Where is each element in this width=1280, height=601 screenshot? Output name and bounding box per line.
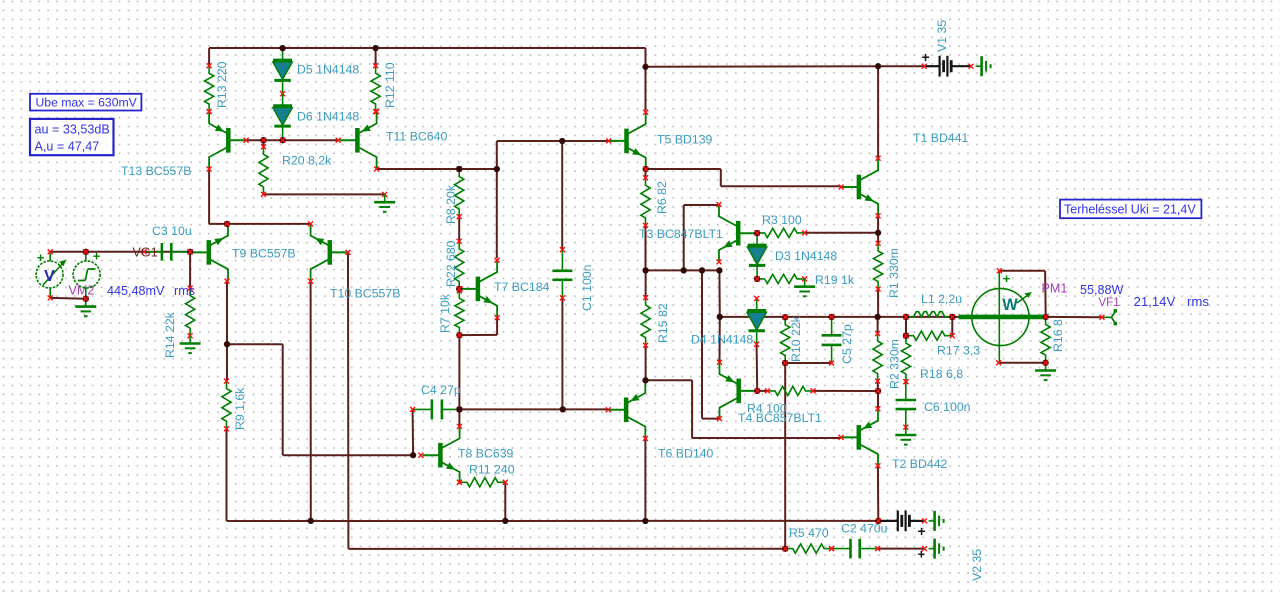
pin X R3 left node xyxy=(755,231,760,236)
svg-text:R9 1,6k: R9 1,6k xyxy=(233,387,247,430)
resistor R8 20k xyxy=(455,167,464,220)
label C4 27p xyxy=(421,383,461,397)
svg-text:V: V xyxy=(44,268,55,285)
wire R9 top from T9 collector xyxy=(226,281,228,344)
capacitor C6 100n xyxy=(896,379,917,430)
pin T8 base xyxy=(418,453,423,458)
resistor R14 22k xyxy=(186,286,195,339)
wire R9 upper stub xyxy=(226,344,228,381)
pin T13 emitter xyxy=(207,109,212,114)
svg-text:C3 10u: C3 10u xyxy=(152,224,192,238)
wire R20 bottom to ground xyxy=(264,193,385,195)
wire R17 right stub xyxy=(951,317,953,336)
label T8 BC639 xyxy=(458,447,514,461)
svg-text:C1 100n: C1 100n xyxy=(580,264,594,311)
resistor R2 330m xyxy=(873,331,882,384)
plus V2 xyxy=(918,523,926,539)
wire R7 col down xyxy=(458,335,460,409)
wire R9 lower stub xyxy=(226,429,228,521)
junction xyxy=(187,249,193,255)
svg-text:T5 BD139: T5 BD139 xyxy=(657,133,713,147)
pin T5 collector xyxy=(643,110,648,115)
junction xyxy=(224,221,230,227)
ground VG1 xyxy=(75,299,96,316)
wire base row T13-T11 xyxy=(245,139,338,141)
svg-text:T6 BD140: T6 BD140 xyxy=(658,447,714,461)
text input level xyxy=(107,284,165,298)
wire to T2 base xyxy=(692,437,841,439)
pin X R10 top node xyxy=(783,315,788,320)
wire PM1 plus right xyxy=(999,270,1045,272)
junction xyxy=(494,166,500,172)
pin T3 emitter xyxy=(717,259,722,264)
junction xyxy=(875,230,881,236)
transistor T9 BC557B xyxy=(191,224,228,281)
svg-text:R6 82: R6 82 xyxy=(655,181,669,214)
wire R10 node down to lower rail xyxy=(784,363,786,549)
label T1 BD441 xyxy=(913,131,969,145)
resistor R17 3,3 xyxy=(904,331,955,340)
label C5 27p xyxy=(840,324,854,364)
wire T4 collector link xyxy=(702,418,720,420)
wire R8-R22 link xyxy=(458,217,460,242)
wire C4 left column xyxy=(412,409,415,455)
resistor R20 8,2k xyxy=(259,144,268,197)
resistor R13 220 xyxy=(205,63,214,114)
wire T11 collector row xyxy=(377,168,497,170)
svg-text:VM2: VM2 xyxy=(69,284,95,298)
junction xyxy=(642,64,648,70)
wire R4 to R2 node xyxy=(813,390,878,392)
pin D5 cathode xyxy=(280,91,285,96)
text Terhelessel xyxy=(1064,202,1196,216)
junction xyxy=(699,267,705,273)
diode D3 1N4148 xyxy=(747,233,767,279)
label V1 35 xyxy=(935,20,949,52)
pin T7 emitter xyxy=(495,315,500,320)
wire T1 emitter lead xyxy=(877,216,879,233)
ground C6 xyxy=(895,427,916,444)
wire C4 to T6 base xyxy=(459,408,608,410)
plus VG1 xyxy=(93,249,101,264)
junction xyxy=(949,314,955,320)
pin X R16 top node xyxy=(1043,314,1048,319)
wire feedback branch down xyxy=(282,344,284,455)
junction xyxy=(903,314,909,320)
label R22 680 xyxy=(444,240,458,287)
V of VM2 xyxy=(44,268,55,285)
junction xyxy=(1043,314,1049,320)
pin T3 collector xyxy=(717,202,722,207)
svg-text:R13 220: R13 220 xyxy=(215,61,229,108)
svg-text:+: + xyxy=(922,49,930,65)
wire PM1 plus down xyxy=(1044,271,1047,317)
pin T4 emitter xyxy=(717,360,722,365)
junction xyxy=(874,314,880,320)
junction xyxy=(642,267,648,273)
svg-text:R11 240: R11 240 xyxy=(469,463,515,477)
wire T1 collector to rail xyxy=(877,66,879,158)
svg-text:Terheléssel Uki = 21,4V: Terheléssel Uki = 21,4V xyxy=(1064,202,1196,216)
label R10 22k xyxy=(789,315,803,362)
junction xyxy=(83,296,89,302)
wire R1 bottom stub xyxy=(877,289,879,317)
plus VM2 xyxy=(37,250,45,265)
label T2 BD442 xyxy=(892,457,948,471)
wire R20 top lead xyxy=(263,140,265,147)
label T7 BC184 xyxy=(494,280,550,294)
W of PM1 xyxy=(1002,296,1018,314)
capacitor C4 27p xyxy=(410,399,462,419)
svg-text:T2 BD442: T2 BD442 xyxy=(892,457,948,471)
label R12 110 xyxy=(383,62,397,108)
junction xyxy=(456,166,462,172)
wire R4 left stub xyxy=(757,390,767,392)
diode D5 1N4148 xyxy=(273,48,293,94)
pin T11 emitter xyxy=(374,109,379,114)
label R7 10k xyxy=(438,293,452,333)
wire bottom rail A xyxy=(227,520,879,522)
svg-text:D3 1N4148: D3 1N4148 xyxy=(775,249,837,263)
svg-text:rms: rms xyxy=(174,284,195,298)
svg-text:C5 27p: C5 27p xyxy=(840,324,854,364)
label T6 BD140 xyxy=(658,447,714,461)
wire R10 bottom to C5 bottom xyxy=(785,362,832,364)
wire T3 collector riser xyxy=(683,205,685,270)
pin X R7 bottom node xyxy=(457,333,462,338)
svg-text:+: + xyxy=(1003,271,1011,286)
svg-text:T1 BD441: T1 BD441 xyxy=(913,131,969,145)
svg-text:R19 1k: R19 1k xyxy=(815,273,855,287)
junction xyxy=(875,518,881,524)
text power xyxy=(1080,283,1124,297)
label VF1 xyxy=(1099,297,1120,309)
transistor T6 BD140 xyxy=(608,381,645,438)
svg-text:VF1: VF1 xyxy=(1099,297,1120,309)
svg-text:R1 330m: R1 330m xyxy=(887,248,901,298)
ground R19 xyxy=(794,279,815,296)
junction xyxy=(828,314,834,320)
svg-text:A,u = 47,47: A,u = 47,47 xyxy=(35,140,100,154)
svg-text:R15 82: R15 82 xyxy=(656,303,670,343)
pin T10 base xyxy=(346,250,351,255)
svg-text:T3 BC847BLT1: T3 BC847BLT1 xyxy=(639,227,723,241)
capacitor C2 470u xyxy=(829,539,880,559)
pin X L1 left node xyxy=(904,314,909,319)
pin X R2 bottom node xyxy=(876,389,881,394)
svg-text:R16 8: R16 8 xyxy=(1051,319,1065,352)
resistor R12 110 xyxy=(371,63,380,114)
label R2 330m xyxy=(888,339,902,389)
junction xyxy=(560,406,566,412)
wire T3 collector link xyxy=(684,204,719,206)
annotation box Ube max xyxy=(30,94,141,111)
wire feedback to T8 base xyxy=(283,454,413,456)
wire T6 emitter branch xyxy=(646,379,693,381)
resistor R19 1k xyxy=(755,274,808,283)
junction xyxy=(1042,360,1048,366)
label R6 82 xyxy=(655,181,669,214)
label R8 20k xyxy=(444,184,458,224)
text au xyxy=(35,123,110,137)
wire T10 collector down xyxy=(310,281,312,521)
svg-text:R10 22k: R10 22k xyxy=(789,315,803,362)
pin D4 cathode xyxy=(754,342,759,347)
text Ube max xyxy=(36,95,138,109)
wire T5 emitter drop xyxy=(720,169,722,186)
transistor T5 BD139 xyxy=(609,112,646,169)
wire junction row xyxy=(646,269,720,271)
pin T1 base xyxy=(839,185,844,190)
annotation box Terhelessel xyxy=(1060,200,1201,219)
wire bottom rail B xyxy=(348,548,785,550)
pin X R17 left node xyxy=(904,333,909,338)
label D4 1N4148 xyxy=(691,333,753,347)
svg-text:rms: rms xyxy=(1187,294,1209,309)
svg-text:D4 1N4148: D4 1N4148 xyxy=(691,333,753,347)
junction xyxy=(260,137,266,143)
wire VM2 to VG1 top xyxy=(50,251,190,253)
junction xyxy=(717,314,723,320)
resistor R16 8 xyxy=(1041,317,1050,363)
svg-text:D6 1N4148: D6 1N4148 xyxy=(297,110,359,124)
text input rms xyxy=(174,284,195,298)
pin X R4 left node xyxy=(755,388,760,393)
label R19 1k xyxy=(815,273,855,287)
transistor T1 BD441 xyxy=(841,158,878,215)
wire D4 cathode to T4 base node xyxy=(756,344,759,391)
resistor R4 100 xyxy=(765,386,816,395)
pin X D6 cathode node xyxy=(280,138,285,143)
wire VM2 bottom xyxy=(50,297,86,300)
wire to T1 base xyxy=(721,185,841,187)
pin T11 base xyxy=(336,138,341,143)
transistor T3 BC847BLT1 xyxy=(719,205,756,262)
junction xyxy=(875,388,881,394)
wire T2 collector down xyxy=(877,466,879,521)
svg-text:R5 470: R5 470 xyxy=(789,526,829,540)
resistor R11 240 xyxy=(457,478,508,487)
svg-text:R17 3,3: R17 3,3 xyxy=(937,344,980,358)
wire R2 bottom stub xyxy=(877,381,879,391)
plus C2 xyxy=(918,547,926,562)
label R9 1,6k xyxy=(233,387,247,430)
pin X VG1 bottom node xyxy=(83,296,88,301)
wire C1 top xyxy=(561,141,563,250)
inductor L1 2,2u xyxy=(904,312,955,320)
battery V1 35 xyxy=(922,56,974,77)
ground R16/PM1 xyxy=(1035,363,1056,380)
svg-text:21,14V: 21,14V xyxy=(1134,294,1176,309)
resistor R9 1,6k xyxy=(222,379,231,432)
pin T4 collector xyxy=(717,416,722,421)
junction xyxy=(782,546,788,552)
junction xyxy=(308,518,314,524)
wire R11 down to rail xyxy=(504,482,506,521)
junction xyxy=(754,230,760,236)
svg-text:R20 8,2k: R20 8,2k xyxy=(282,154,332,168)
pin X L1 right node xyxy=(950,314,955,319)
pin X R20 top node xyxy=(261,138,266,143)
pin T5 base xyxy=(606,138,611,143)
ground V2 xyxy=(929,511,944,531)
label R14 22k xyxy=(163,311,177,358)
junction xyxy=(279,137,285,143)
text Au xyxy=(35,140,100,154)
svg-text:55,88W: 55,88W xyxy=(1080,283,1124,297)
ground after R20 xyxy=(374,194,395,211)
label T9 BC557B xyxy=(232,247,296,261)
label C1 100n xyxy=(580,264,594,311)
pin T10 emitter xyxy=(308,221,313,226)
pin X T9 base node xyxy=(188,249,193,254)
transistor T10 BC557B xyxy=(311,224,348,281)
junction xyxy=(502,518,508,524)
pin X R16 bottom node xyxy=(1043,360,1048,365)
wire R2 top stub xyxy=(877,317,879,334)
transistor T2 BD442 xyxy=(841,409,878,466)
junction xyxy=(782,314,788,320)
pin X R10 bottom node xyxy=(783,361,788,366)
label R5 470 xyxy=(789,526,829,540)
junction xyxy=(903,333,909,339)
svg-text:VG1: VG1 xyxy=(133,246,158,260)
junction xyxy=(754,276,760,282)
wire R6 top lead xyxy=(645,169,647,178)
wire C1 bottom xyxy=(561,298,563,410)
label T13 BC557B xyxy=(121,164,191,178)
wire T8 collector stub xyxy=(458,409,460,426)
svg-text:V1 35: V1 35 xyxy=(935,20,949,52)
junction xyxy=(754,388,760,394)
label D5 1N4148 xyxy=(297,63,359,77)
pin T7 collector xyxy=(495,258,500,263)
wire T5 collector xyxy=(645,67,647,111)
wire T3/T4 emitter column upper xyxy=(718,270,720,317)
wire branch down xyxy=(691,380,693,438)
svg-text:+: + xyxy=(93,249,101,264)
capacitor C1 100n xyxy=(552,247,572,300)
wire T3/T4 emitter column lower xyxy=(719,317,721,362)
transistor T7 BC184 xyxy=(460,260,497,317)
resistor R18 6,8 xyxy=(901,333,910,384)
pin T2 collector xyxy=(875,463,880,468)
junction xyxy=(716,267,722,273)
wire top rail drop xyxy=(645,48,647,67)
label VM2 xyxy=(69,284,95,298)
svg-text:T4 BC857BLT1: T4 BC857BLT1 xyxy=(738,411,822,425)
label C3 10u xyxy=(152,224,192,238)
wire R15 bottom lead xyxy=(645,345,647,380)
wire C2 to V2 ground xyxy=(878,548,925,550)
pin T8 emitter xyxy=(457,480,462,485)
label T10 BC557B xyxy=(330,287,400,301)
pin T1 collector xyxy=(876,156,881,161)
pin T8 collector xyxy=(457,424,462,429)
svg-text:T7 BC184: T7 BC184 xyxy=(494,280,550,294)
pin X T9 collector xyxy=(225,279,230,284)
svg-text:PM1: PM1 xyxy=(1042,282,1068,296)
wire top rail V+ upper xyxy=(209,47,645,49)
resistor R7 10k xyxy=(455,288,464,337)
wire T13 collector to diff pair emitters xyxy=(209,223,311,225)
wire T13 collector down xyxy=(208,169,210,224)
label R13 220 xyxy=(215,61,229,108)
label R20 8,2k xyxy=(282,154,332,168)
svg-text:T9 BC557B: T9 BC557B xyxy=(232,247,296,261)
svg-text:Ube max = 630mV: Ube max = 630mV xyxy=(36,95,138,109)
wire T5 emitter row xyxy=(646,168,721,170)
pin T7 base xyxy=(458,286,463,291)
wire R13 top lead xyxy=(208,48,210,66)
annotation box au/Au xyxy=(30,119,114,155)
wire R1 top stub xyxy=(877,233,879,244)
svg-text:W: W xyxy=(1002,296,1018,314)
resistor R15 82 xyxy=(641,295,650,348)
junction xyxy=(875,63,881,69)
svg-text:T13 BC557B: T13 BC557B xyxy=(121,164,191,178)
pin D4 anode xyxy=(754,296,759,301)
plus PM1 xyxy=(1003,271,1011,286)
ground C2 return xyxy=(929,539,944,559)
text output rms xyxy=(1187,294,1209,309)
pin T6 collector xyxy=(643,436,648,441)
label T4 BC857BLT1 xyxy=(738,411,822,425)
label R17 3,3 xyxy=(937,344,980,358)
svg-text:R22 680: R22 680 xyxy=(444,240,458,287)
transistor T11 BC640 xyxy=(340,112,377,169)
pin R20 ground end xyxy=(382,192,387,197)
label C2 470u xyxy=(841,522,888,536)
label T3 BC847BLT1 xyxy=(639,227,723,241)
pin X T7 base node xyxy=(457,286,462,291)
junction xyxy=(224,341,230,347)
pin X T13 collector xyxy=(207,167,212,172)
probe VF1 xyxy=(1100,309,1118,325)
svg-text:R18 6,8: R18 6,8 xyxy=(920,367,963,381)
svg-text:L1 2,2u: L1 2,2u xyxy=(921,292,962,306)
resistor R5 470 xyxy=(783,544,834,553)
svg-text:R7 10k: R7 10k xyxy=(438,293,452,333)
svg-text:T8 BC639: T8 BC639 xyxy=(458,447,514,461)
resistor R6 82 xyxy=(641,175,650,228)
wire top rail V+ to battery xyxy=(646,65,925,68)
junction xyxy=(559,138,565,144)
junction xyxy=(681,267,687,273)
pin T2 base xyxy=(839,435,844,440)
svg-text:C6 100n: C6 100n xyxy=(924,400,971,414)
junction xyxy=(456,286,462,292)
transistor T4 BC857BLT1 xyxy=(720,362,757,419)
svg-text:+: + xyxy=(918,547,926,562)
pin X VG1 top node xyxy=(83,249,88,254)
resistor R22 680 xyxy=(455,239,464,292)
label VG1 xyxy=(133,246,158,260)
wattmeter PM1 xyxy=(959,268,1044,365)
wire to T5 base xyxy=(497,140,609,142)
resistor R10 22k xyxy=(781,315,790,366)
wire T7 emitter left xyxy=(459,334,497,336)
junction xyxy=(83,249,89,255)
label C6 100n xyxy=(924,400,971,414)
label R18 6,8 xyxy=(920,367,963,381)
label L1 2,2u xyxy=(921,292,962,306)
label R15 82 xyxy=(656,303,670,343)
ground V1 xyxy=(976,56,991,76)
pin T1 emitter xyxy=(876,213,881,218)
label R4 100 xyxy=(747,402,787,416)
wire output to VF1 xyxy=(1046,316,1102,318)
